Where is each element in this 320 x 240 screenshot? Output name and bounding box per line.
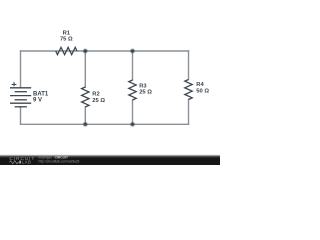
svg-text:75 Ω: 75 Ω (60, 37, 73, 43)
svg-text:25 Ω: 25 Ω (139, 90, 152, 96)
svg-text:R2: R2 (92, 92, 99, 98)
svg-text:9 V: 9 V (33, 97, 42, 103)
svg-text:R4: R4 (196, 82, 204, 88)
svg-text:R3: R3 (139, 83, 147, 89)
svg-text:LAB: LAB (22, 160, 32, 165)
svg-text:http://circuitlab.com/ca/9ac5: http://circuitlab.com/ca/9ac5 (39, 159, 80, 163)
svg-text:25 Ω: 25 Ω (92, 98, 105, 104)
svg-text:R1: R1 (63, 30, 71, 36)
svg-text:50 Ω: 50 Ω (196, 89, 209, 95)
